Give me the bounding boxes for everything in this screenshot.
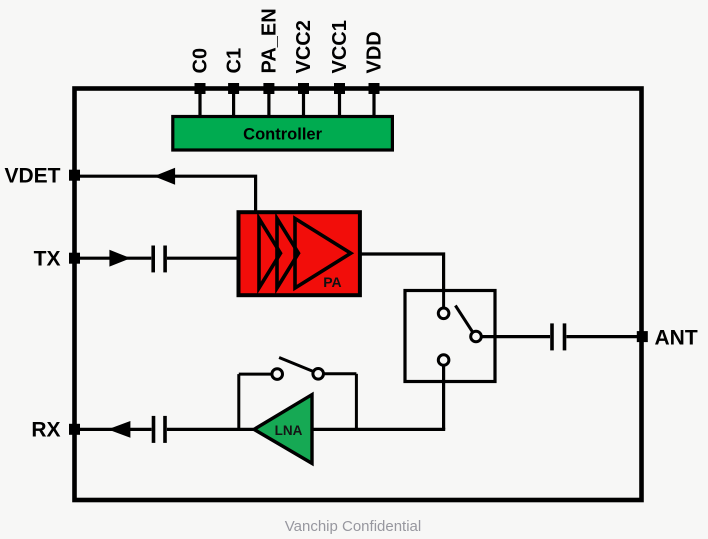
- svg-text:Controller: Controller: [243, 126, 322, 144]
- svg-text:RX: RX: [31, 419, 60, 442]
- arrow on TX wire (pointing right): [109, 250, 130, 267]
- wire capacitor to ANT pin: [566, 335, 637, 338]
- pin RX: [31, 419, 80, 442]
- svg-text:Vanchip Confidential: Vanchip Confidential: [285, 518, 421, 535]
- svg-text:PA_EN: PA_EN: [259, 8, 281, 73]
- capacitor on ANT line: [552, 323, 565, 350]
- svg-text:C1: C1: [223, 48, 245, 74]
- wire switch to capacitor: [481, 335, 550, 338]
- amplifier LNA: [254, 395, 312, 464]
- wire PA output to switch: [360, 254, 444, 290]
- arrow on RX wire (pointing left): [108, 421, 131, 438]
- capacitor on TX line: [153, 246, 165, 273]
- svg-text:PA: PA: [323, 274, 341, 290]
- pin VDET: [4, 165, 80, 188]
- wire TX to capacitor: [79, 257, 151, 260]
- wire LNA input to switch bottom: [312, 428, 445, 431]
- svg-text:TX: TX: [34, 248, 61, 271]
- amplifier PA: [239, 212, 360, 295]
- svg-text:VCC1: VCC1: [329, 20, 351, 73]
- wire VDET to PA top: [79, 176, 256, 213]
- pin VDD: [364, 31, 386, 116]
- controller U1: [173, 117, 393, 151]
- footer note: [285, 518, 421, 535]
- pin C1: [223, 48, 245, 117]
- pin ANT: [637, 327, 698, 350]
- svg-text:VDET: VDET: [4, 165, 60, 188]
- pin PA_EN: [259, 8, 281, 116]
- wire capacitor to PA input: [167, 257, 240, 260]
- arrow on VDET wire (pointing left): [154, 168, 175, 185]
- svg-text:ANT: ANT: [655, 327, 698, 350]
- wire RX to capacitor: [79, 428, 152, 431]
- svg-text:VCC2: VCC2: [293, 20, 315, 73]
- pin VCC2: [293, 20, 315, 116]
- chip boundary box: [75, 89, 642, 501]
- svg-text:C0: C0: [190, 48, 212, 74]
- switch SW1 (antenna switch): [405, 291, 495, 430]
- pin VCC1: [329, 20, 351, 116]
- capacitor on RX line: [154, 416, 166, 443]
- svg-text:LNA: LNA: [275, 423, 303, 438]
- pin C0: [190, 48, 212, 117]
- svg-text:VDD: VDD: [364, 31, 386, 73]
- bypass switch SW2 over LNA: [239, 358, 357, 430]
- pin TX: [34, 248, 80, 271]
- wire capacitor to LNA output: [167, 428, 255, 431]
